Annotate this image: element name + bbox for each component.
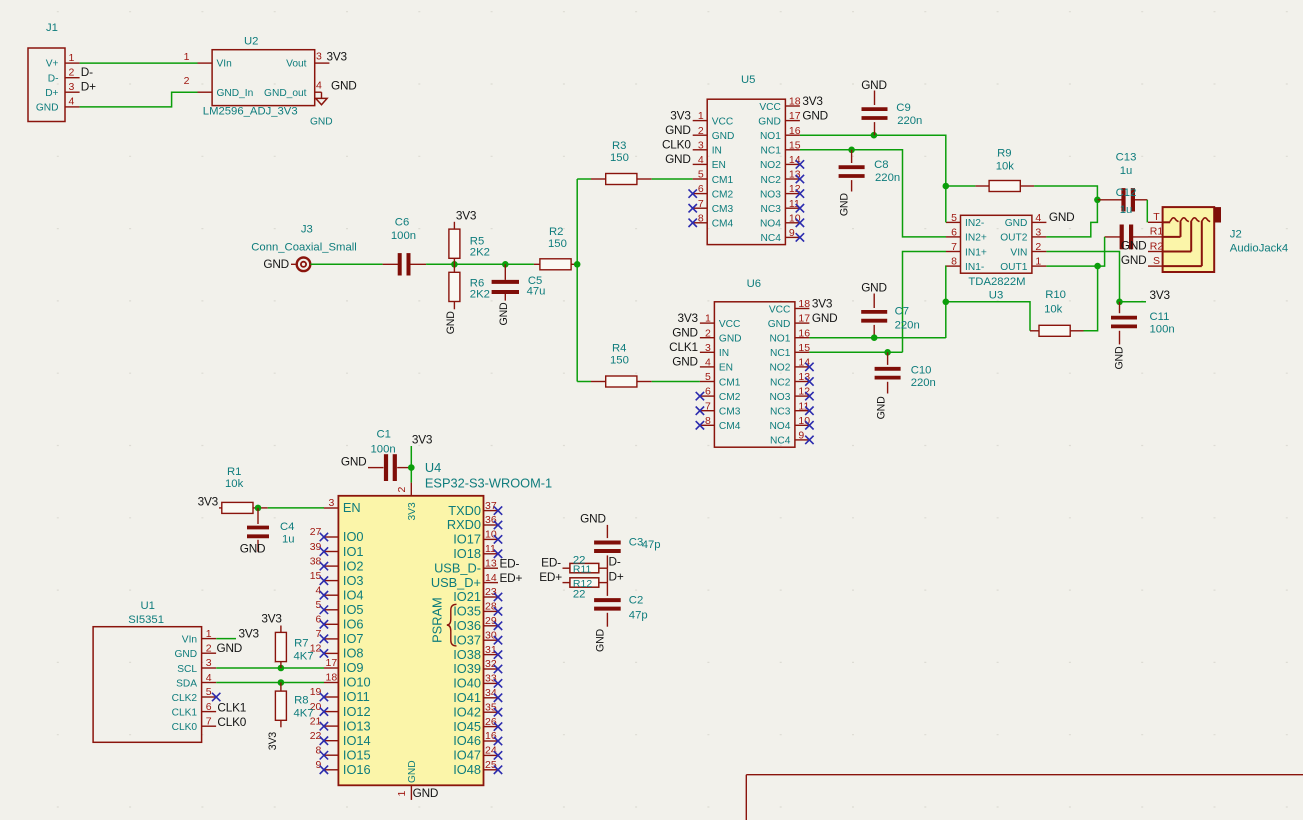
svg-text:10: 10 (485, 529, 497, 541)
svg-text:3V3: 3V3 (456, 208, 477, 222)
svg-text:NC2: NC2 (761, 175, 782, 186)
svg-text:IO7: IO7 (343, 631, 364, 646)
svg-text:R3: R3 (612, 140, 626, 152)
svg-text:IO47: IO47 (453, 748, 481, 763)
svg-text:GND: GND (812, 311, 838, 325)
svg-text:LM2596_ADJ_3V3: LM2596_ADJ_3V3 (203, 106, 298, 118)
svg-text:Conn_Coaxial_Small: Conn_Coaxial_Small (251, 241, 357, 253)
svg-text:47p: 47p (642, 539, 661, 551)
svg-text:ED+: ED+ (500, 571, 523, 585)
svg-text:U1: U1 (141, 600, 155, 612)
svg-text:USB_D+: USB_D+ (431, 575, 481, 590)
svg-text:IO36: IO36 (453, 618, 481, 633)
svg-text:R1: R1 (1150, 226, 1164, 238)
svg-text:GND: GND (413, 786, 439, 800)
svg-text:R2: R2 (549, 226, 563, 238)
svg-text:3V3: 3V3 (261, 612, 282, 626)
svg-text:220n: 220n (911, 377, 936, 389)
svg-text:C8: C8 (874, 159, 888, 171)
svg-text:VIn: VIn (217, 59, 232, 70)
svg-text:R4: R4 (612, 342, 626, 354)
svg-text:47u: 47u (527, 286, 546, 298)
svg-text:27: 27 (310, 526, 322, 538)
svg-text:R10: R10 (1045, 289, 1066, 301)
svg-text:7: 7 (316, 628, 322, 640)
svg-text:100n: 100n (391, 230, 416, 242)
svg-text:IO10: IO10 (343, 675, 371, 690)
svg-text:5: 5 (705, 371, 711, 383)
svg-text:VCC: VCC (769, 304, 791, 315)
svg-text:6: 6 (206, 701, 212, 713)
svg-text:36: 36 (485, 514, 497, 526)
svg-text:VIn: VIn (182, 634, 197, 645)
svg-text:ED-: ED- (541, 556, 561, 570)
svg-text:31: 31 (485, 644, 497, 656)
svg-text:U2: U2 (244, 35, 258, 47)
svg-text:SCL: SCL (177, 664, 197, 675)
svg-text:C7: C7 (895, 306, 909, 318)
svg-text:3V3: 3V3 (239, 627, 260, 641)
svg-text:D-: D- (609, 555, 621, 569)
svg-text:GND: GND (174, 649, 197, 660)
svg-text:2: 2 (1035, 241, 1041, 253)
svg-text:IN2+: IN2+ (965, 233, 987, 244)
svg-text:NO2: NO2 (760, 160, 781, 171)
svg-text:R6: R6 (470, 277, 484, 289)
svg-text:15: 15 (798, 342, 810, 354)
svg-text:IO21: IO21 (453, 589, 481, 604)
svg-text:2: 2 (184, 75, 190, 87)
svg-text:IO3: IO3 (343, 573, 364, 588)
svg-text:9: 9 (798, 430, 804, 442)
svg-text:GND: GND (341, 454, 367, 468)
svg-text:GND: GND (498, 302, 510, 325)
svg-text:GND: GND (310, 116, 333, 127)
svg-text:GND_In: GND_In (217, 88, 254, 99)
svg-text:ESP32-S3-WROOM-1: ESP32-S3-WROOM-1 (425, 475, 552, 490)
svg-text:22: 22 (573, 555, 586, 567)
svg-text:4K7: 4K7 (294, 651, 314, 663)
svg-text:D-: D- (81, 65, 93, 79)
svg-text:R7: R7 (294, 637, 308, 649)
svg-text:IO16: IO16 (343, 762, 371, 777)
svg-text:IO8: IO8 (343, 646, 364, 661)
svg-text:CLK0: CLK0 (217, 715, 246, 729)
svg-text:1: 1 (396, 791, 408, 797)
svg-text:11: 11 (798, 400, 809, 412)
svg-text:32: 32 (485, 658, 497, 670)
svg-text:3V3: 3V3 (802, 94, 823, 108)
svg-text:30: 30 (485, 629, 497, 641)
svg-text:17: 17 (326, 657, 338, 669)
svg-text:15: 15 (310, 570, 322, 582)
svg-text:25: 25 (485, 759, 497, 771)
svg-text:6: 6 (698, 183, 704, 195)
svg-text:7: 7 (705, 400, 711, 412)
svg-text:4: 4 (316, 584, 322, 596)
svg-text:16: 16 (798, 327, 810, 339)
svg-text:NO4: NO4 (760, 219, 781, 230)
svg-text:33: 33 (485, 673, 497, 685)
svg-text:3V3: 3V3 (678, 311, 699, 325)
svg-text:GND_out: GND_out (264, 88, 307, 99)
svg-text:2K2: 2K2 (470, 246, 490, 258)
svg-text:D+: D+ (45, 88, 58, 99)
svg-text:CM4: CM4 (719, 421, 741, 432)
svg-text:1u: 1u (282, 534, 295, 546)
svg-text:GND: GND (768, 319, 791, 330)
svg-text:1: 1 (698, 110, 704, 122)
svg-text:NC3: NC3 (770, 407, 791, 418)
svg-text:4: 4 (206, 672, 212, 684)
svg-text:3: 3 (698, 139, 704, 151)
svg-text:4: 4 (69, 96, 75, 108)
svg-text:R8: R8 (294, 694, 308, 706)
svg-text:13: 13 (485, 557, 497, 569)
svg-text:GND: GND (240, 542, 266, 556)
svg-text:CLK1: CLK1 (217, 700, 246, 714)
svg-text:AudioJack4: AudioJack4 (1230, 242, 1288, 254)
svg-text:EN: EN (343, 500, 361, 515)
svg-text:7: 7 (951, 241, 957, 253)
svg-text:220n: 220n (875, 172, 900, 184)
svg-text:GND: GND (1049, 210, 1075, 224)
svg-text:150: 150 (548, 238, 567, 250)
svg-text:GND: GND (263, 257, 289, 271)
svg-text:11: 11 (485, 543, 496, 555)
svg-text:U5: U5 (741, 74, 755, 86)
svg-text:2: 2 (698, 125, 704, 137)
svg-text:11: 11 (789, 198, 800, 210)
svg-text:OUT1: OUT1 (1000, 262, 1028, 273)
svg-text:C4: C4 (280, 521, 294, 533)
svg-text:IO35: IO35 (453, 604, 481, 619)
svg-text:IO17: IO17 (453, 532, 481, 547)
svg-text:2: 2 (69, 67, 75, 79)
svg-text:3: 3 (1035, 227, 1041, 239)
svg-text:C13: C13 (1116, 152, 1137, 164)
svg-text:NO3: NO3 (760, 189, 781, 200)
svg-text:Vout: Vout (286, 59, 307, 70)
svg-text:VCC: VCC (759, 102, 781, 113)
svg-text:C9: C9 (896, 102, 910, 114)
svg-text:IN: IN (719, 348, 729, 359)
svg-text:2: 2 (206, 642, 212, 654)
svg-text:GND: GND (1005, 218, 1028, 229)
svg-text:3V3: 3V3 (407, 502, 418, 520)
svg-text:EN: EN (719, 363, 733, 374)
svg-text:IO18: IO18 (453, 546, 481, 561)
svg-text:GND: GND (876, 396, 888, 419)
svg-text:18: 18 (326, 672, 338, 684)
svg-text:CM1: CM1 (712, 175, 734, 186)
svg-text:IO11: IO11 (343, 689, 370, 704)
svg-text:IO45: IO45 (453, 719, 481, 734)
svg-text:15: 15 (789, 139, 801, 151)
svg-text:GND: GND (861, 281, 887, 295)
svg-text:GND: GND (331, 79, 357, 93)
svg-text:GND: GND (861, 78, 887, 92)
svg-text:U4: U4 (425, 460, 441, 475)
svg-text:J2: J2 (1230, 228, 1242, 240)
svg-text:18: 18 (798, 298, 810, 310)
svg-text:GND: GND (1114, 346, 1126, 369)
svg-text:3: 3 (316, 51, 322, 63)
svg-text:IO2: IO2 (343, 558, 364, 573)
svg-text:NC4: NC4 (761, 233, 782, 244)
svg-text:17: 17 (789, 110, 801, 122)
svg-text:10k: 10k (225, 478, 244, 490)
svg-text:16: 16 (485, 730, 497, 742)
svg-text:4: 4 (698, 154, 704, 166)
svg-text:USB_D-: USB_D- (434, 560, 481, 575)
svg-text:28: 28 (485, 601, 497, 613)
svg-text:RXD0: RXD0 (447, 517, 481, 532)
svg-text:IO12: IO12 (343, 704, 371, 719)
svg-text:23: 23 (485, 586, 497, 598)
svg-text:39: 39 (310, 541, 322, 553)
svg-text:3V3: 3V3 (1150, 288, 1171, 302)
svg-text:GND: GND (1121, 238, 1147, 252)
svg-text:NO4: NO4 (769, 421, 790, 432)
svg-text:NO2: NO2 (769, 363, 790, 374)
svg-text:3V3: 3V3 (812, 296, 833, 310)
svg-text:5: 5 (698, 169, 704, 181)
svg-text:3V3: 3V3 (198, 494, 219, 508)
svg-text:J3: J3 (301, 223, 313, 235)
svg-text:5: 5 (206, 686, 212, 698)
svg-text:8: 8 (316, 745, 322, 757)
svg-text:SDA: SDA (176, 678, 197, 689)
svg-text:37: 37 (485, 500, 497, 512)
svg-text:22: 22 (310, 730, 322, 742)
svg-text:IO37: IO37 (453, 632, 481, 647)
svg-text:TXD0: TXD0 (448, 503, 481, 518)
svg-text:100n: 100n (1150, 323, 1175, 335)
svg-text:C6: C6 (395, 216, 409, 228)
svg-text:GND: GND (839, 193, 851, 216)
svg-text:6: 6 (705, 386, 711, 398)
svg-text:ED-: ED- (500, 556, 520, 570)
svg-text:1: 1 (705, 313, 711, 325)
svg-text:9: 9 (316, 759, 322, 771)
svg-text:IO42: IO42 (453, 704, 481, 719)
svg-text:NC4: NC4 (770, 436, 791, 447)
svg-text:IO13: IO13 (343, 718, 371, 733)
svg-text:2: 2 (705, 327, 711, 339)
svg-text:NO1: NO1 (760, 131, 781, 142)
svg-text:24: 24 (485, 745, 497, 757)
svg-text:IO39: IO39 (453, 661, 481, 676)
svg-text:GND: GND (672, 326, 698, 340)
svg-text:IO40: IO40 (453, 676, 481, 691)
svg-text:IO0: IO0 (343, 529, 364, 544)
svg-text:IO38: IO38 (453, 647, 481, 662)
svg-text:CLK0: CLK0 (662, 138, 691, 152)
svg-text:D-: D- (48, 73, 59, 84)
svg-text:U3: U3 (989, 289, 1003, 301)
svg-text:26: 26 (485, 716, 497, 728)
svg-text:CLK2: CLK2 (172, 693, 198, 704)
svg-text:GND: GND (665, 152, 691, 166)
svg-text:8: 8 (951, 256, 957, 268)
svg-text:7: 7 (698, 198, 704, 210)
svg-text:IO15: IO15 (343, 748, 371, 763)
svg-text:3: 3 (69, 81, 75, 93)
svg-text:9: 9 (789, 227, 795, 239)
svg-text:6: 6 (951, 227, 957, 239)
svg-text:CM4: CM4 (712, 219, 734, 230)
svg-text:1u: 1u (1120, 165, 1133, 177)
svg-text:19: 19 (310, 686, 322, 698)
svg-text:CLK1: CLK1 (669, 340, 698, 354)
svg-text:VCC: VCC (712, 116, 734, 127)
svg-text:4: 4 (1035, 212, 1041, 224)
svg-text:NC1: NC1 (770, 348, 791, 359)
svg-text:35: 35 (485, 701, 497, 713)
svg-text:T: T (1153, 211, 1160, 223)
svg-text:4K7: 4K7 (294, 707, 314, 719)
svg-text:GND: GND (445, 311, 457, 334)
svg-text:1: 1 (1035, 256, 1041, 268)
svg-text:34: 34 (485, 687, 497, 699)
svg-text:GND: GND (665, 123, 691, 137)
svg-text:10k: 10k (996, 161, 1015, 173)
svg-text:100n: 100n (371, 444, 396, 456)
svg-text:GND: GND (407, 760, 418, 783)
svg-text:10k: 10k (1044, 304, 1063, 316)
svg-text:150: 150 (610, 152, 629, 164)
svg-text:5: 5 (316, 599, 322, 611)
svg-text:1: 1 (69, 52, 75, 64)
svg-text:U6: U6 (747, 278, 761, 290)
svg-text:5: 5 (951, 212, 957, 224)
svg-text:220n: 220n (895, 319, 920, 331)
svg-text:IO48: IO48 (453, 762, 481, 777)
svg-text:R2: R2 (1150, 240, 1164, 252)
svg-text:VIN: VIN (1010, 247, 1027, 258)
svg-text:CM3: CM3 (712, 204, 734, 215)
svg-text:IO46: IO46 (453, 733, 481, 748)
svg-text:C12: C12 (1116, 187, 1137, 199)
svg-text:GND: GND (712, 131, 735, 142)
svg-text:IO14: IO14 (343, 733, 371, 748)
svg-text:IN2-: IN2- (965, 218, 984, 229)
svg-text:CM2: CM2 (719, 392, 741, 403)
svg-text:C1: C1 (377, 428, 391, 440)
svg-text:3: 3 (705, 342, 711, 354)
svg-text:GND: GND (595, 628, 607, 651)
svg-text:GND: GND (719, 334, 742, 345)
svg-text:6: 6 (316, 614, 322, 626)
svg-text:NO1: NO1 (769, 334, 790, 345)
svg-text:2K2: 2K2 (470, 289, 490, 301)
svg-text:IO9: IO9 (343, 660, 364, 675)
svg-text:17: 17 (798, 313, 810, 325)
svg-text:3V3: 3V3 (267, 732, 279, 751)
svg-text:8: 8 (705, 415, 711, 427)
svg-text:29: 29 (485, 615, 497, 627)
svg-text:NC2: NC2 (770, 377, 791, 388)
svg-text:C10: C10 (911, 365, 932, 377)
svg-text:D+: D+ (81, 80, 96, 94)
svg-text:S: S (1153, 255, 1160, 267)
svg-text:TDA2822M: TDA2822M (968, 276, 1025, 288)
svg-text:4: 4 (705, 357, 711, 369)
svg-text:PSRAM: PSRAM (430, 597, 445, 643)
svg-text:150: 150 (610, 355, 629, 367)
svg-text:1u: 1u (1120, 204, 1133, 216)
svg-text:22: 22 (573, 589, 586, 601)
svg-text:EN: EN (712, 160, 726, 171)
svg-text:GND: GND (1121, 253, 1147, 267)
svg-text:220n: 220n (897, 115, 922, 127)
svg-text:3V3: 3V3 (670, 108, 691, 122)
svg-text:IO41: IO41 (453, 690, 481, 705)
svg-text:GND: GND (580, 511, 606, 525)
svg-text:GND: GND (758, 116, 781, 127)
svg-text:1: 1 (206, 628, 212, 640)
svg-text:7: 7 (206, 715, 212, 727)
svg-text:J1: J1 (46, 22, 58, 34)
svg-text:3V3: 3V3 (412, 432, 433, 446)
svg-text:47p: 47p (629, 609, 648, 621)
svg-text:IN: IN (712, 146, 722, 157)
svg-text:SI5351: SI5351 (128, 614, 164, 626)
svg-text:NC3: NC3 (761, 204, 782, 215)
svg-text:V+: V+ (46, 59, 59, 70)
svg-text:D+: D+ (609, 570, 624, 584)
svg-text:2: 2 (396, 487, 408, 493)
svg-text:IO5: IO5 (343, 602, 364, 617)
svg-text:NC1: NC1 (761, 146, 782, 157)
svg-text:3: 3 (206, 657, 212, 669)
svg-text:VCC: VCC (719, 319, 741, 330)
svg-text:R9: R9 (997, 148, 1011, 160)
svg-text:8: 8 (698, 212, 704, 224)
svg-text:CM3: CM3 (719, 407, 741, 418)
svg-text:1: 1 (184, 51, 190, 63)
svg-text:ED+: ED+ (539, 570, 562, 584)
svg-text:CLK1: CLK1 (172, 707, 198, 718)
svg-text:GND: GND (802, 108, 828, 122)
svg-text:18: 18 (789, 96, 801, 108)
svg-text:16: 16 (789, 125, 801, 137)
svg-text:NO3: NO3 (769, 392, 790, 403)
svg-text:IO6: IO6 (343, 617, 364, 632)
svg-text:OUT2: OUT2 (1000, 233, 1028, 244)
svg-text:IN1+: IN1+ (965, 247, 987, 258)
svg-text:CLK0: CLK0 (172, 722, 198, 733)
svg-text:IO1: IO1 (343, 544, 364, 559)
svg-text:GND: GND (36, 103, 59, 114)
svg-text:IN1-: IN1- (965, 262, 984, 273)
svg-text:IO4: IO4 (343, 587, 364, 602)
svg-text:GND: GND (217, 641, 243, 655)
svg-text:C11: C11 (1150, 311, 1170, 323)
svg-text:38: 38 (310, 555, 322, 567)
svg-text:4: 4 (316, 80, 322, 92)
svg-text:GND: GND (672, 355, 698, 369)
svg-text:R1: R1 (227, 466, 241, 478)
svg-text:3: 3 (328, 497, 334, 509)
svg-text:C2: C2 (629, 595, 643, 607)
svg-text:14: 14 (485, 572, 497, 584)
svg-text:3V3: 3V3 (327, 50, 348, 64)
svg-text:CM1: CM1 (719, 377, 741, 388)
svg-text:CM2: CM2 (712, 189, 734, 200)
